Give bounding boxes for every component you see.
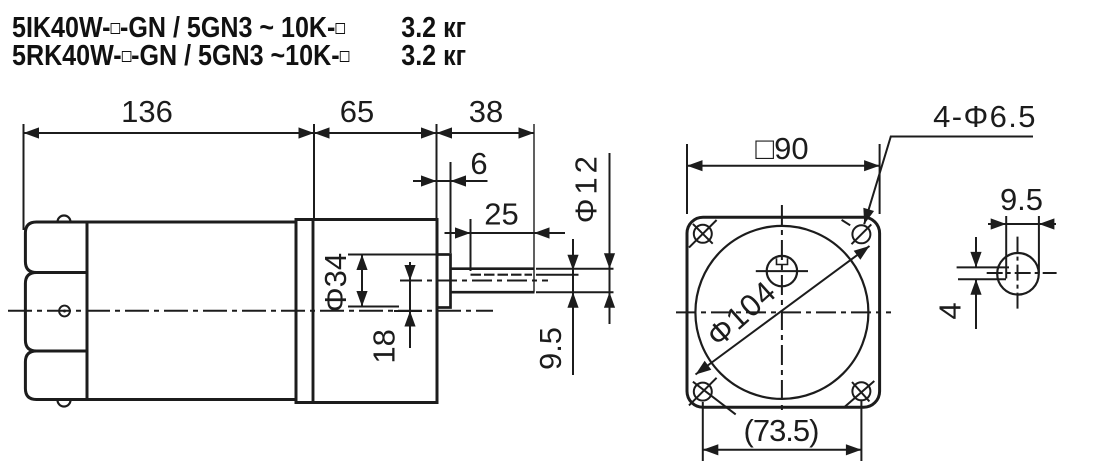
phi12 dim — [609, 153, 611, 324]
phi104 arrows — [692, 361, 711, 379]
title line 2 — [12, 42, 349, 71]
top dimension line 136/65/38 — [24, 132, 535, 134]
svg-text:Φ34: Φ34 — [318, 253, 353, 312]
shaft centerline — [402, 280, 548, 282]
svg-text:25: 25 — [484, 197, 518, 232]
motor end cap section 2 — [25, 273, 87, 352]
svg-text:9.5: 9.5 — [1000, 182, 1043, 217]
ext right tangent — [1038, 216, 1040, 273]
horizontal centerline — [676, 311, 891, 313]
4 dim lines — [957, 266, 1009, 268]
ext line motor/gearhead — [313, 124, 315, 218]
phi34 dim — [361, 255, 363, 307]
svg-text:136: 136 — [121, 94, 173, 129]
leader 4-phi6.5 — [864, 137, 1033, 225]
svg-text:□90: □90 — [755, 131, 808, 166]
vertical centerline — [781, 205, 783, 410]
65 arrows — [314, 127, 330, 138]
corner hole BL — [689, 378, 736, 415]
svg-text:4-Φ6.5: 4-Φ6.5 — [933, 99, 1037, 134]
leader arrow — [859, 208, 874, 226]
svg-text:65: 65 — [340, 94, 374, 129]
shaft flat dashed line — [471, 274, 533, 276]
sq90 arrows — [687, 160, 703, 171]
sq90 dim — [687, 165, 880, 167]
motor body — [87, 222, 296, 400]
73.5 arrows — [703, 444, 719, 455]
6 dim line — [413, 180, 488, 182]
73.5 dim — [703, 449, 862, 451]
38 arrows — [437, 127, 453, 138]
136 arrows — [24, 127, 40, 138]
9.5 dim — [572, 239, 574, 375]
keyway notch — [777, 258, 788, 264]
phi104 diagonal — [696, 246, 870, 375]
ext line left motor — [23, 124, 25, 230]
25 arrows outside — [455, 227, 471, 238]
screw boss top — [58, 216, 71, 223]
shaft circle — [767, 256, 797, 286]
shaft end line — [533, 124, 535, 292]
title line 1 — [12, 14, 345, 43]
detail crosshair — [987, 272, 1057, 274]
gearhead block — [296, 220, 437, 403]
ext line 25 left — [470, 219, 472, 271]
9.5 detail arrows outside — [991, 218, 1007, 229]
shaft section circle — [997, 253, 1039, 295]
svg-text:(73.5): (73.5) — [744, 413, 819, 448]
corner hole TR — [842, 220, 872, 244]
9.5 arrows outside — [567, 255, 578, 271]
6 arrows outside — [421, 175, 437, 186]
corner hole BR — [844, 381, 874, 407]
phi12 arrows outside — [604, 253, 615, 269]
svg-text:6: 6 — [470, 146, 487, 181]
screw boss bottom — [58, 400, 71, 407]
9.5 dim line — [988, 223, 1056, 225]
svg-text:38: 38 — [469, 94, 503, 129]
corner hole TL — [689, 220, 717, 248]
ext line boss face — [450, 162, 452, 253]
shaft ext lines right — [536, 268, 614, 270]
svg-text:Φ12: Φ12 — [569, 152, 604, 223]
gearhead square face — [687, 217, 880, 407]
motor centerline — [8, 310, 493, 312]
ext line gearhead face — [436, 124, 438, 218]
25 dim line — [445, 232, 566, 234]
motor end cap section 3 — [25, 351, 87, 400]
4 detail arrows outside — [970, 252, 981, 268]
shaft boss — [437, 255, 451, 308]
svg-text:4: 4 — [933, 302, 968, 319]
phi34 arrows inside — [356, 255, 367, 271]
svg-text:9.5: 9.5 — [533, 327, 568, 370]
gearhead flange line — [312, 220, 315, 403]
svg-text:18: 18 — [367, 329, 402, 363]
center screw circle — [59, 306, 70, 317]
shaft bottom line — [451, 291, 535, 294]
18 dim — [409, 262, 411, 348]
motor end cap section 1 — [25, 222, 87, 273]
shaft top line — [451, 267, 535, 270]
big circle — [695, 226, 868, 399]
ext flat — [1005, 216, 1007, 279]
shaft circle h-centerline — [756, 270, 808, 272]
18 arrows outside — [404, 265, 415, 281]
